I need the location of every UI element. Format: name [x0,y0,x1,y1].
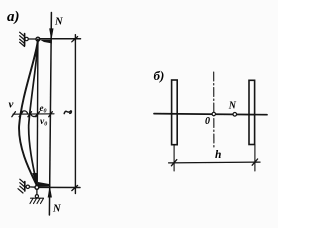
svg-text:h: h [215,149,221,161]
bottom link wire [30,186,36,188]
arc above between B and A [21,111,28,114]
tick on curve B [19,112,23,117]
svg-text:v0: v0 [40,117,47,128]
svg-text:e0: e0 [40,103,47,115]
bottom pin circle [35,186,39,190]
svg-text:а): а) [7,9,20,25]
top force arrowhead [50,29,54,39]
tick right of h [252,159,257,165]
point N circle [233,113,237,117]
roller link [36,189,38,194]
point O circle [212,112,215,115]
deflection curve B (outer) [19,40,38,187]
bottom bracket wedge [38,182,50,187]
top junction ink wedge [34,41,39,57]
roller circle [35,195,38,198]
dimension line h [169,161,260,164]
svg-text:0: 0 [205,116,210,127]
right extension line [254,145,256,171]
bottom support wall [24,182,26,192]
deflection curve A (inner) [29,40,38,187]
bottom support small circle [26,185,29,188]
tick top of l [72,37,78,42]
force line N (vertical) [49,13,51,216]
top horizontal line [40,38,81,40]
svg-text:v: v [9,99,14,111]
top pin circle [36,37,40,41]
top support link wire [28,38,36,40]
mid horizontal measure line [13,113,54,115]
svg-text:б): б) [154,68,165,83]
tick bottom of l [72,185,78,190]
top bracket wedge (eccentric load arm) [40,40,52,44]
arc below between A and chord [31,114,37,117]
right branch rectangle [249,80,255,144]
tick on chord [36,112,40,117]
tick left of h [171,160,176,166]
tick on curve A [28,112,32,117]
bottom junction ink wedge [32,173,37,186]
tick on force line [49,112,53,117]
label l (rotated glyph) [64,111,71,114]
ground plate [31,197,44,199]
dimension line l (vertical right) [74,35,76,194]
bottom support hatching [18,179,25,193]
chord straight axis [36,40,39,187]
svg-text:N: N [52,204,61,215]
section horizontal axis line [154,114,267,115]
svg-text:N: N [54,16,63,27]
top support hatching [20,32,25,46]
top support wall [24,34,26,46]
ground hatching [30,198,44,203]
left extension line [173,145,175,171]
svg-text:N: N [228,101,237,112]
bottom horizontal line [39,186,80,188]
tick at left end [12,112,16,117]
top support small circle [25,37,28,40]
bottom force arrowhead [48,188,51,198]
left branch rectangle [172,80,178,145]
vertical dash-dot centerline [213,72,215,149]
